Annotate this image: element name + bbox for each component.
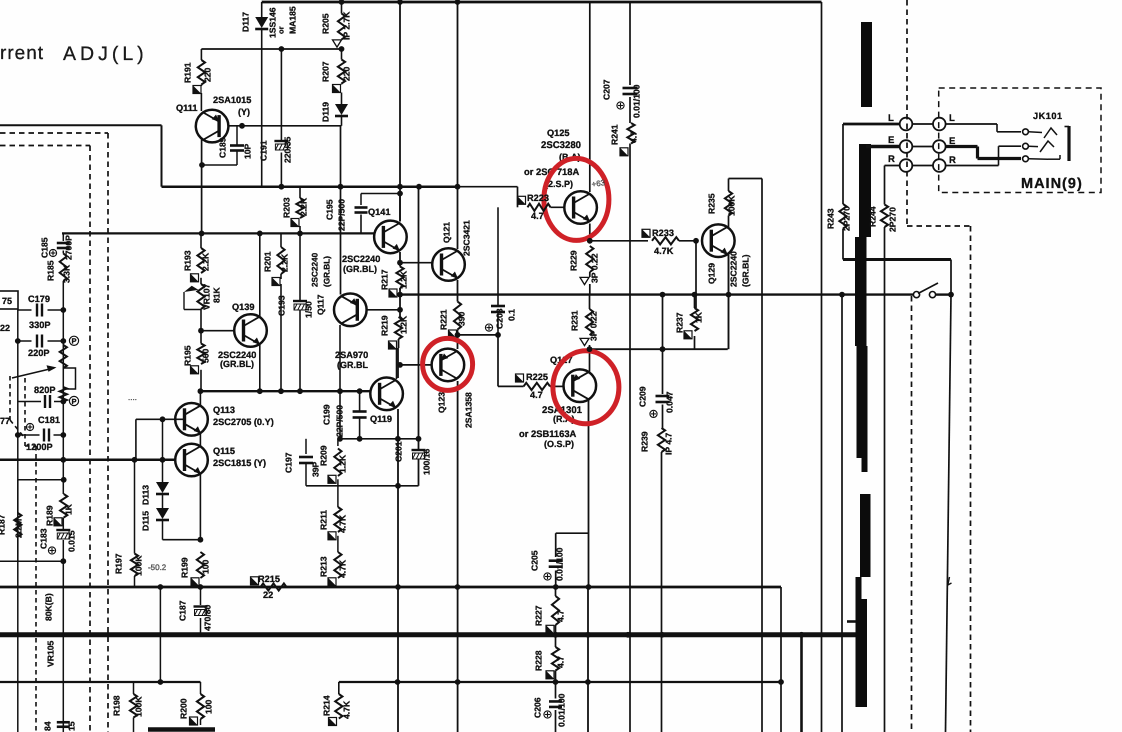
capacitor C193 [293, 300, 307, 302]
capacitor C201 [412, 449, 426, 451]
svg-text:1K: 1K [64, 503, 74, 515]
wire C197 box top [305, 439, 307, 454]
resistor R215 [261, 583, 287, 590]
wire vertical x821 long [821, 2, 823, 732]
svg-text:C187: C187 [178, 600, 188, 621]
capacitor C206 [549, 700, 562, 703]
svg-text:R201: R201 [263, 251, 273, 272]
resistor R187 [14, 513, 21, 537]
resistor R193 [197, 248, 204, 273]
wire vertical x801 heavy [800, 635, 803, 732]
svg-text:R199: R199 [180, 557, 190, 578]
svg-text:C179: C179 [28, 294, 50, 304]
svg-text:820P: 820P [34, 385, 55, 395]
svg-text:(GR.BL): (GR.BL) [220, 359, 254, 369]
wire Q125 emitter row 241 [590, 240, 648, 242]
wire vertical x781 [780, 587, 782, 732]
resistor R241 [627, 123, 634, 144]
wire Q117 base [358, 309, 400, 311]
capacitor 820P [44, 395, 46, 408]
variable resistor VR107 [197, 284, 204, 309]
dashed box MAIN [939, 88, 1101, 193]
transistor Q139 [234, 314, 267, 347]
svg-text:C199: C199 [322, 404, 332, 425]
svg-text:C181: C181 [38, 415, 60, 425]
wire Q127 collector [589, 349, 591, 371]
wire vertical x843 lower [841, 295, 843, 732]
svg-text:4.7: 4.7 [556, 610, 566, 622]
svg-text:P: P [71, 337, 76, 346]
svg-text:2SA1015: 2SA1015 [213, 95, 251, 105]
svg-text:4.7K: 4.7K [338, 559, 348, 578]
svg-text:Q115: Q115 [213, 446, 235, 456]
svg-text:Q125: Q125 [547, 128, 569, 138]
svg-text:100K: 100K [727, 195, 737, 216]
capacitor C199 [353, 410, 367, 413]
resistor R195 [197, 344, 204, 365]
marker R231 triangle [580, 338, 589, 345]
svg-text:1K: 1K [694, 311, 704, 323]
svg-text:Q119: Q119 [370, 414, 392, 424]
dashed border 1 [0, 132, 108, 134]
svg-text:R215: R215 [258, 574, 280, 584]
svg-text:C197: C197 [284, 452, 294, 473]
wire R187 bottom row [0, 560, 64, 562]
dashed line x911 [911, 296, 913, 732]
svg-text:C203: C203 [495, 308, 505, 329]
svg-text:2SA1358: 2SA1358 [464, 392, 474, 428]
resistor R219 [395, 317, 402, 339]
jack spring 2 [1040, 141, 1054, 152]
svg-text:D119: D119 [321, 102, 331, 122]
svg-text:Q123: Q123 [437, 392, 447, 413]
svg-text:R214: R214 [322, 695, 332, 716]
wire mid rail 294 right stub [936, 293, 952, 295]
wire E jack jog heavy [976, 147, 979, 159]
flag R217 [389, 289, 397, 297]
capacitor 220P [36, 335, 38, 348]
wire x555 R227 chain [555, 587, 557, 596]
resistor R207 [338, 60, 345, 84]
resistor R189 [60, 494, 67, 518]
wire Q129 emitter [728, 255, 730, 350]
svg-text:C207: C207 [602, 79, 612, 100]
svg-text:100K: 100K [134, 555, 144, 576]
flag R227 [546, 625, 554, 633]
svg-text:R209: R209 [319, 445, 329, 466]
resistor R239 [658, 428, 665, 452]
svg-text:1.2K: 1.2K [399, 270, 409, 289]
svg-text:2SC2240: 2SC2240 [729, 251, 739, 287]
svg-text:4.7: 4.7 [629, 131, 639, 143]
svg-text:R200: R200 [179, 698, 189, 719]
diode D115 [156, 508, 169, 519]
flag R241 [620, 148, 628, 156]
svg-text:IP 4.7: IP 4.7 [664, 432, 674, 455]
wire Q111 collector drop [201, 139, 203, 233]
svg-text:E: E [888, 135, 894, 146]
svg-text:R244: R244 [868, 206, 878, 227]
marker C185 polarity [49, 249, 56, 256]
wire R229 bottom [589, 284, 591, 295]
wire vertical x630 long [629, 2, 631, 85]
wire x340 to C197 row [339, 391, 341, 439]
resistor R217 [396, 267, 403, 289]
svg-text:4.7K: 4.7K [338, 514, 348, 533]
svg-text:R239: R239 [640, 431, 650, 452]
svg-text:Q117: Q117 [316, 294, 326, 315]
resistor R200 [197, 694, 204, 719]
jack contact 2 [1023, 143, 1029, 149]
junction dots [339, 0, 345, 5]
svg-text:4.7: 4.7 [531, 211, 544, 221]
capacitor C195 [355, 206, 368, 209]
resistor R221 [454, 302, 461, 330]
capacitor C184 bottom [57, 721, 70, 724]
wire Q139 base lead [201, 330, 235, 332]
svg-text:2P270: 2P270 [842, 206, 852, 231]
wire R jack jog [998, 146, 1000, 165]
transistor Q141 [374, 221, 407, 254]
resistor R205 [338, 14, 345, 40]
svg-text:100/16: 100/16 [422, 448, 432, 475]
svg-text:3P 0.22: 3P 0.22 [589, 311, 599, 341]
svg-text:22P/500: 22P/500 [335, 405, 345, 437]
dashed box VR area [24, 378, 26, 446]
resistor R229 [586, 246, 593, 272]
wire Q129 collector [728, 216, 730, 228]
wire vertical x133 R197 link [134, 460, 136, 554]
svg-text:R243: R243 [826, 208, 836, 229]
wire Q123 base [398, 364, 440, 366]
svg-text:0.047: 0.047 [665, 391, 675, 413]
svg-text:R231: R231 [570, 310, 580, 331]
flag R214 [329, 718, 337, 726]
wire Q121 base [400, 262, 441, 264]
svg-text:0.01/100: 0.01/100 [555, 547, 565, 581]
svg-text:C185: C185 [40, 237, 50, 258]
svg-text:R228: R228 [534, 650, 544, 671]
capacitor C209 [656, 395, 670, 398]
svg-text:(Y): (Y) [238, 107, 250, 117]
svg-text:C205: C205 [530, 550, 540, 571]
flag R201 [272, 278, 280, 286]
bus tick [847, 620, 856, 623]
wire left input line [0, 124, 162, 126]
wire rail 682 left [0, 681, 201, 683]
svg-text:100: 100 [204, 699, 214, 714]
svg-text:R235: R235 [707, 193, 717, 214]
svg-text:R225: R225 [526, 372, 548, 382]
wire L row [843, 123, 900, 126]
diode D119 [335, 104, 348, 115]
wire L jack jog [996, 124, 998, 132]
wire vertical x398 long [399, 2, 401, 187]
svg-text:R205: R205 [321, 13, 331, 34]
resistor R233 [652, 237, 679, 244]
wire Q119 collector [396, 348, 398, 379]
wire heavy rail 635 [0, 632, 861, 637]
wire Q127 emitter drop [588, 400, 590, 587]
wire vertical x63 upper [62, 233, 64, 240]
svg-text:2SC2240: 2SC2240 [342, 254, 380, 264]
wire vertical x18 [17, 309, 19, 732]
svg-text:2SC1815 (Y): 2SC1815 (Y) [213, 458, 266, 468]
resistor R223 [528, 204, 551, 211]
flag R195 [191, 366, 199, 374]
svg-text:22: 22 [0, 323, 10, 333]
svg-text:L: L [888, 113, 894, 124]
wire Q117 emitter drop [339, 325, 341, 391]
resistor R185 [60, 254, 67, 282]
svg-text:VR105: VR105 [46, 641, 56, 667]
transistor Q113 [175, 403, 208, 436]
svg-text:....: .... [128, 393, 137, 402]
marker C209 polarity [650, 410, 657, 417]
svg-text:R241: R241 [610, 124, 620, 145]
svg-text:Q113: Q113 [213, 405, 235, 415]
svg-text:C189: C189 [218, 137, 228, 158]
svg-text:Q141: Q141 [368, 207, 390, 217]
svg-text:77: 77 [0, 416, 10, 426]
svg-text:0.01/100: 0.01/100 [632, 84, 642, 118]
wire rail 460 Q115 base [0, 459, 183, 462]
wire x555 R228 chain [555, 635, 557, 647]
svg-text:VR107: VR107 [202, 284, 212, 310]
wire left corner vertical [161, 125, 163, 186]
jack spring 1 [1044, 128, 1057, 138]
flag R233 [642, 229, 650, 237]
svg-text:220: 220 [203, 67, 213, 82]
svg-text:470/80: 470/80 [203, 604, 213, 631]
transistor Q117 [334, 294, 367, 327]
wire top supply rail [262, 1, 822, 4]
power bus heavy bar [861, 22, 872, 107]
wire Q113 collector [199, 391, 201, 405]
svg-text:C195: C195 [325, 199, 335, 220]
svg-text:R191: R191 [183, 62, 193, 83]
svg-text:2SC2705 (0.Y): 2SC2705 (0.Y) [213, 417, 274, 427]
highlight red circle Q127 [553, 351, 619, 424]
svg-text:C183: C183 [39, 528, 49, 549]
flag R215 [251, 577, 259, 585]
wire rail 187 to R223 jog [458, 186, 518, 188]
svg-text:(GR.BL: (GR.BL [337, 360, 368, 370]
svg-text:(GR.BL): (GR.BL) [343, 264, 377, 274]
svg-text:1/50: 1/50 [304, 301, 314, 318]
svg-text:2.2M: 2.2M [14, 519, 24, 538]
switch contacts [913, 292, 919, 298]
svg-text:0.1: 0.1 [507, 309, 517, 321]
svg-text:Q129: Q129 [707, 263, 717, 284]
svg-text:2.2K: 2.2K [201, 252, 211, 271]
svg-text:R211: R211 [319, 510, 329, 530]
wire C199/C201 row 439 [340, 438, 419, 440]
wire rail 682 right [339, 681, 781, 683]
diode D117 [255, 17, 268, 28]
wire vertical x63 mid [62, 281, 64, 494]
svg-text:1200P: 1200P [26, 442, 53, 452]
svg-text:22P/500: 22P/500 [337, 199, 347, 231]
wire vertical x696 chain [695, 241, 697, 308]
highlight red circle Q125 [544, 158, 609, 240]
svg-text:R213: R213 [319, 556, 329, 577]
flag R200 [190, 717, 198, 725]
switch lever [918, 283, 938, 294]
wire x201 bias chain top [200, 233, 202, 248]
wire mid rail 294 [400, 293, 913, 295]
resistor R197 [131, 554, 138, 577]
svg-text:R185: R185 [46, 260, 56, 281]
svg-text:220/35: 220/35 [283, 136, 293, 163]
transistor Q129 [702, 224, 735, 257]
svg-text:3.3K: 3.3K [62, 264, 72, 283]
wire rail 587 [0, 586, 781, 589]
wire vertical x63 low [62, 518, 64, 530]
marker circled P 2 [69, 396, 78, 405]
flag R213 [328, 578, 336, 586]
svg-text:JK101: JK101 [1033, 111, 1063, 121]
wire x555 C206 chain [555, 682, 557, 699]
wire R209 bottom [337, 479, 339, 507]
jack contact 1 [1023, 129, 1029, 135]
svg-text:81K: 81K [212, 286, 222, 303]
capacitor C183 [56, 529, 70, 531]
marker C207 polarity [617, 102, 624, 109]
svg-text:220: 220 [342, 66, 352, 81]
svg-text:220P: 220P [28, 348, 49, 358]
svg-text:D115: D115 [141, 511, 151, 531]
wire R201 bottom [280, 284, 282, 391]
resistor R243 [839, 204, 846, 229]
svg-text:R207: R207 [321, 61, 331, 82]
svg-text:MA185: MA185 [288, 6, 298, 34]
resistor R201 [277, 247, 284, 274]
wire R225 feed [498, 385, 524, 387]
transistor Q125 [564, 191, 597, 224]
flag R191 [193, 86, 201, 94]
wire vertical x200 bottom [200, 682, 202, 694]
svg-text:C206: C206 [533, 697, 543, 718]
wire C179 row [18, 309, 32, 311]
svg-text:80K(B): 80K(B) [44, 593, 54, 621]
svg-text:R187: R187 [0, 514, 7, 535]
svg-text:ADJ(L): ADJ(L) [63, 43, 148, 65]
wire diode bottom link 540 [163, 539, 201, 541]
svg-text:C193: C193 [277, 295, 287, 316]
arrow VR105 wiper [12, 368, 54, 378]
wire rail B+ 187 [162, 185, 458, 188]
wire R225 feed vertical [497, 335, 499, 387]
svg-text:rrent: rrent [0, 43, 44, 64]
dashed line x907 [906, 0, 908, 226]
box 75 connector [0, 291, 18, 309]
svg-text:0.01/100: 0.01/100 [557, 693, 567, 727]
wire R187 top row [18, 479, 64, 481]
wire R231 bottom [589, 345, 591, 349]
flag R219 [389, 341, 397, 349]
wire x201 to Q139 base [200, 310, 202, 344]
svg-text:22: 22 [263, 590, 273, 600]
svg-text:2.2K: 2.2K [280, 253, 290, 272]
svg-text:R237: R237 [675, 312, 685, 333]
resistor R225 [524, 383, 550, 390]
flag R223 [518, 196, 526, 204]
svg-text:-50.2: -50.2 [148, 563, 167, 572]
svg-text:4.7: 4.7 [530, 390, 543, 400]
capacitor C207 [623, 87, 638, 90]
svg-text:R219: R219 [380, 315, 390, 336]
svg-text:1.2K: 1.2K [338, 454, 348, 473]
dashed border 2 [0, 145, 90, 147]
svg-text:75: 75 [2, 296, 12, 306]
resistor R203 [296, 198, 303, 218]
capacitor C191 [274, 140, 288, 142]
flag R199 [191, 578, 199, 586]
svg-text:R198: R198 [112, 695, 122, 716]
flag R228 [546, 671, 554, 679]
svg-text:100K: 100K [134, 696, 144, 717]
capacitor C189 [230, 144, 244, 147]
wire Q115 emitter [199, 474, 201, 540]
wire R243 chain vertical [842, 124, 844, 204]
svg-text:2SC2240: 2SC2240 [311, 252, 320, 287]
svg-text:2P270: 2P270 [888, 207, 898, 232]
svg-text:4.7K: 4.7K [654, 246, 674, 256]
wire vertical x160 [159, 587, 161, 682]
svg-text:R229: R229 [569, 250, 579, 271]
resistor R231 [586, 309, 593, 335]
wire C197 row 486 [306, 485, 419, 487]
wire Q125 collector [589, 2, 591, 192]
dashed link y226 [907, 225, 971, 227]
capacitor C203 [491, 305, 505, 308]
marker C181 polarity [26, 423, 33, 430]
flag R225 [516, 374, 524, 382]
svg-text:R197: R197 [114, 553, 124, 574]
wire vertical x661 chain [662, 295, 664, 394]
svg-text:Q111: Q111 [176, 103, 197, 113]
svg-text:or 2SB1163A: or 2SB1163A [519, 428, 577, 439]
transistor Q127 [564, 369, 597, 402]
svg-text:R227: R227 [534, 605, 544, 626]
svg-text:R233: R233 [652, 228, 674, 238]
resistor R237 [691, 308, 698, 331]
svg-text:Q139: Q139 [232, 302, 254, 312]
wire bias rail 233 [62, 232, 377, 234]
wire 820P row [18, 401, 41, 403]
svg-text:IP 2.7K: IP 2.7K [342, 11, 352, 40]
wire x951 drop [950, 260, 952, 296]
svg-text:P: P [71, 397, 76, 406]
wire node row 349 [590, 348, 728, 350]
marker C203 polarity [485, 324, 492, 331]
svg-text:MAIN(9): MAIN(9) [1021, 176, 1083, 192]
connector pins L E R [900, 118, 913, 131]
highlight red circle Q123 [423, 338, 473, 390]
wire C195 top jog [361, 193, 400, 195]
svg-text:R195: R195 [183, 345, 193, 366]
marker R229 triangle [580, 277, 589, 284]
marker circled P 1 [69, 336, 78, 345]
mark on x947 line [948, 577, 952, 585]
wire x555 C205 chain [555, 533, 557, 557]
flag R237 [684, 331, 692, 339]
wire C187 chain [200, 587, 202, 605]
svg-text:84: 84 [43, 721, 53, 731]
resistor R213 [334, 552, 341, 578]
transistor Q119 [370, 378, 403, 411]
